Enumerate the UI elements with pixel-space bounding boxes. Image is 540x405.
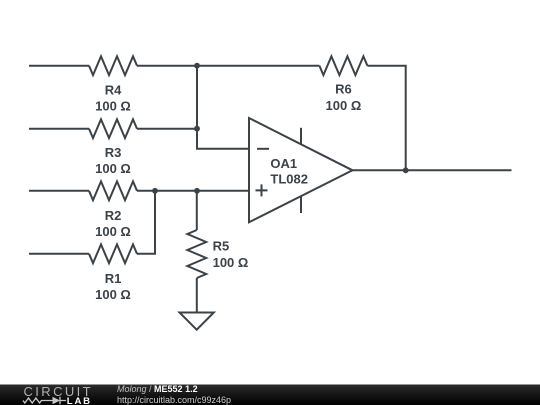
resistor R3 (89, 119, 137, 138)
svg-text:TL082: TL082 (270, 172, 308, 187)
svg-text:R3: R3 (105, 145, 122, 160)
svg-text:R1: R1 (105, 271, 122, 286)
resistor R4 (89, 56, 137, 75)
op-amp OA1 triangle (249, 118, 353, 222)
svg-text:100 Ω: 100 Ω (213, 255, 249, 270)
svg-text:R5: R5 (213, 239, 230, 254)
op-amp inverting pin minus sign (257, 148, 269, 150)
svg-text:100 Ω: 100 Ω (95, 224, 131, 239)
node junction row1 (194, 63, 200, 69)
resistor R6 (319, 56, 367, 75)
wire R5 bottom (196, 278, 198, 313)
wire R1 up to node (137, 191, 155, 254)
wire R6 to output (367, 66, 405, 171)
wire row1 right to R6 (137, 65, 319, 67)
svg-text:LAB: LAB (67, 396, 92, 405)
ground (180, 313, 214, 330)
svg-text:100 Ω: 100 Ω (95, 161, 131, 176)
node junction R1 (152, 188, 158, 194)
svg-text:R4: R4 (105, 82, 122, 97)
wire inverting input (197, 66, 250, 149)
resistor R1 (89, 244, 137, 263)
svg-text:100 Ω: 100 Ω (95, 98, 131, 113)
wire row1 left (29, 65, 89, 67)
svg-text:R2: R2 (105, 208, 122, 223)
node junction row2 (194, 126, 200, 132)
wire row2 right (137, 128, 197, 130)
op-amp noninverting pin plus sign (256, 184, 268, 196)
svg-text:http://circuitlab.com/c99z46p: http://circuitlab.com/c99z46p (117, 395, 231, 405)
wire output (353, 169, 512, 171)
svg-text:R6: R6 (335, 82, 352, 97)
node junction output (403, 167, 409, 173)
wire row2 left (29, 128, 89, 130)
resistor R5 (187, 230, 206, 278)
op-amp V- power tick (300, 196, 302, 213)
svg-text:OA1: OA1 (270, 156, 297, 171)
node junction R5 (194, 188, 200, 194)
op-amp V+ power tick (300, 128, 302, 145)
wire row3 left (29, 190, 89, 192)
wire row3 right to noninverting input (137, 190, 250, 192)
CircuitLab logo resistor-diode glyph (23, 397, 66, 404)
resistor R2 (89, 181, 137, 200)
wire row4 left (29, 253, 89, 255)
svg-text:Molong / ME552 1.2: Molong / ME552 1.2 (117, 384, 198, 394)
svg-text:100 Ω: 100 Ω (326, 98, 362, 113)
wire R5 top (196, 191, 198, 230)
svg-text:100 Ω: 100 Ω (95, 287, 131, 302)
